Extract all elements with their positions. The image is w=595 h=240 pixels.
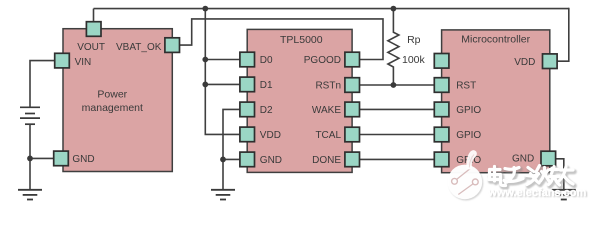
svg-text:TCAL: TCAL	[315, 130, 341, 141]
wire RSTn to RST	[360, 84, 435, 86]
svg-text:WAKE: WAKE	[312, 105, 341, 116]
wire microcontroller GND to ground	[556, 159, 564, 190]
microcontroller block U3	[442, 30, 550, 173]
wire TPL5000 GND stub	[223, 158, 240, 160]
watermark chinese text 电子发烧友	[489, 166, 574, 188]
svg-text:VDD: VDD	[260, 130, 281, 141]
wire vertical VDD branch to D0 D1 VDD	[205, 9, 240, 135]
wire D1 stub	[205, 83, 240, 85]
svg-text:GPIO: GPIO	[456, 105, 481, 116]
wire DONE to GPIO	[360, 158, 435, 160]
resistor Rp	[388, 9, 426, 85]
svg-text:TPL5000: TPL5000	[280, 34, 323, 46]
pin VOUT	[77, 22, 105, 54]
watermark url www.elecfans.com	[487, 187, 588, 200]
pin WAKE	[312, 102, 360, 117]
svg-text:VOUT: VOUT	[77, 42, 105, 53]
pin GND TPL5000	[240, 152, 282, 167]
node junction battery ground	[27, 156, 33, 162]
wire VIN to battery	[30, 61, 56, 107]
ground symbol left	[18, 190, 42, 200]
pin VBAT_OK	[116, 38, 179, 53]
pin D2	[240, 102, 273, 117]
pin GPIO 1	[434, 102, 481, 117]
pin RSTn	[315, 78, 359, 93]
svg-text:DONE: DONE	[312, 155, 341, 166]
pin RST	[434, 78, 476, 93]
pin VDD microcontroller	[514, 54, 557, 69]
pin D1	[240, 77, 273, 92]
svg-text:GND: GND	[72, 154, 94, 165]
wire VBAT_OK to PGOOD	[180, 19, 384, 60]
battery BT1	[20, 107, 40, 124]
pin GND microcontroller	[512, 151, 556, 166]
svg-text:Power: Power	[97, 89, 127, 101]
svg-text:GND: GND	[260, 155, 282, 166]
svg-text:Rp: Rp	[407, 34, 421, 46]
pin DONE	[312, 152, 359, 167]
svg-text:VBAT_OK: VBAT_OK	[116, 42, 162, 53]
svg-text:D0: D0	[260, 55, 273, 66]
svg-text:PGOOD: PGOOD	[304, 55, 341, 66]
pin D0	[240, 52, 273, 67]
pin PGOOD	[304, 52, 360, 67]
node junction D0	[202, 57, 208, 63]
svg-text:VDD: VDD	[514, 57, 535, 68]
svg-text:RSTn: RSTn	[315, 81, 341, 92]
svg-text:100k: 100k	[402, 54, 426, 66]
ground symbol middle	[211, 190, 235, 200]
svg-text:RST: RST	[456, 81, 476, 92]
wire D0 stub	[205, 59, 240, 61]
TPL5000 block U2	[247, 29, 352, 172]
node junction Rp RSTn	[391, 82, 397, 88]
pin VDD TPL5000	[240, 127, 281, 142]
node junction top VDD branch	[202, 6, 208, 12]
svg-text:D1: D1	[260, 80, 273, 91]
wire battery to ground and power GND	[30, 124, 54, 189]
pin unlabeled microcontroller	[434, 54, 449, 69]
pin GND power	[54, 151, 95, 166]
svg-text:GPIO: GPIO	[456, 130, 481, 141]
wire D2 to ground net	[223, 109, 240, 189]
svg-text:www.elecfans.com: www.elecfans.com	[487, 187, 586, 199]
node junction top Rp	[391, 6, 397, 12]
svg-text:D2: D2	[260, 105, 273, 116]
wire VOUT up from pin	[93, 9, 95, 22]
pin TCAL	[315, 127, 359, 142]
wire WAKE to GPIO	[360, 108, 435, 110]
node junction D2 ground	[220, 157, 226, 163]
svg-text:GND: GND	[512, 154, 534, 165]
svg-text:VIN: VIN	[75, 57, 92, 68]
pin VIN	[55, 53, 92, 68]
pin GPIO 3	[434, 152, 481, 167]
watermark logo circle	[448, 150, 484, 200]
svg-text:management: management	[82, 102, 143, 114]
node junction D1	[202, 82, 208, 88]
power management block U1	[63, 29, 172, 172]
svg-text:Microcontroller: Microcontroller	[461, 33, 530, 45]
wire TCAL to GPIO	[360, 134, 435, 136]
pin GPIO 2	[434, 127, 481, 142]
ground symbol right	[552, 190, 576, 200]
wire VDD rail drop to microcontroller VDD	[557, 8, 569, 61]
wire top VDD rail	[94, 8, 569, 10]
